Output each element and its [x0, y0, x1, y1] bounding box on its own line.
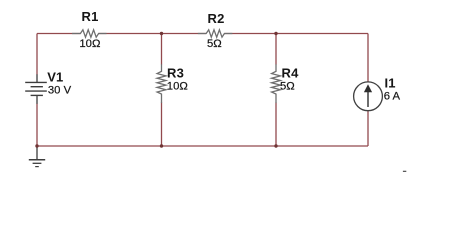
svg-text:5Ω: 5Ω [280, 80, 295, 92]
svg-text:10Ω: 10Ω [79, 38, 100, 50]
svg-text:V1: V1 [47, 69, 63, 84]
svg-text:6 A: 6 A [384, 91, 401, 103]
svg-text:I1: I1 [385, 75, 396, 90]
svg-text:R2: R2 [208, 11, 225, 26]
svg-text:R4: R4 [282, 66, 300, 81]
svg-text:R3: R3 [167, 66, 184, 81]
svg-text:R1: R1 [82, 9, 99, 24]
svg-text:5Ω: 5Ω [207, 38, 222, 50]
svg-text:30 V: 30 V [48, 85, 72, 97]
svg-text:10Ω: 10Ω [167, 80, 188, 92]
